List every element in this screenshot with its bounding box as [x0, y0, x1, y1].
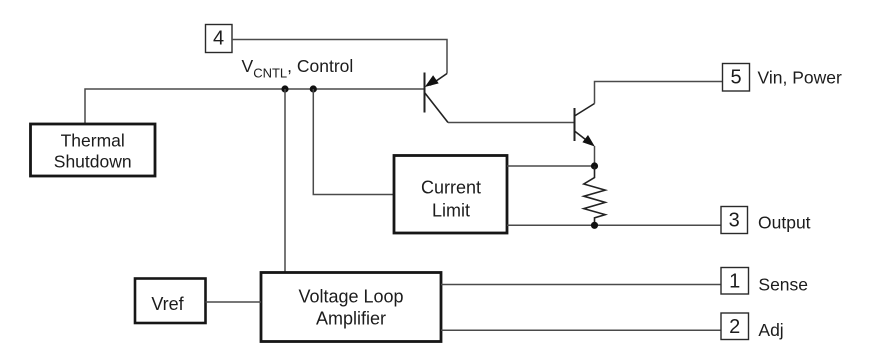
transistor Q1	[425, 73, 449, 123]
box Voltage Loop Amplifier	[261, 273, 441, 342]
wire Q2 collector to pin 5	[595, 82, 723, 104]
svg-text:Amplifier: Amplifier	[316, 309, 386, 329]
resistor R1	[584, 166, 605, 225]
node B junction	[591, 222, 598, 229]
transistor Q2	[575, 104, 595, 147]
wire VLA to pin 2	[441, 329, 721, 331]
node junction VCNTL to VLA	[281, 85, 288, 92]
wire Current Limit to node A	[507, 165, 595, 167]
wire VCNTL to Current Limit	[313, 89, 394, 195]
svg-text:Voltage Loop: Voltage Loop	[298, 287, 403, 307]
wire Vref to Voltage Loop Amplifier	[206, 301, 262, 303]
svg-text:Vin, Power: Vin, Power	[758, 67, 842, 87]
pin 3 box	[721, 207, 748, 234]
svg-text:5: 5	[730, 67, 741, 89]
svg-text:1: 1	[729, 270, 740, 292]
node junction VCNTL to Current Limit	[310, 85, 317, 92]
svg-text:Thermal: Thermal	[61, 131, 125, 151]
wire Current Limit to node B to pin 3	[507, 224, 721, 226]
wire Q2 emitter to node A	[594, 146, 596, 166]
pin 5 box	[723, 64, 750, 92]
wire VCNTL control line	[85, 89, 425, 124]
svg-text:Shutdown: Shutdown	[54, 152, 132, 172]
wire VCNTL to Voltage Loop Amplifier	[284, 89, 286, 273]
box Vref	[135, 279, 206, 324]
svg-text:Vref: Vref	[151, 294, 184, 314]
svg-text:Sense: Sense	[758, 275, 808, 295]
svg-text:2: 2	[729, 316, 740, 338]
wire Q1 collector to Q2 base	[448, 122, 575, 124]
wire pin4 to Q1 emitter elbow	[232, 40, 447, 74]
pin 2 box	[721, 313, 749, 340]
svg-text:3: 3	[729, 209, 740, 231]
node A junction	[591, 162, 598, 169]
svg-text:Adj: Adj	[758, 320, 783, 340]
pin 4 box	[206, 25, 233, 53]
box Current Limit	[394, 156, 507, 234]
svg-text:Output: Output	[758, 212, 811, 232]
svg-text:4: 4	[213, 28, 224, 50]
svg-text:Current: Current	[421, 178, 481, 198]
box Thermal Shutdown	[31, 124, 156, 176]
wire VLA to pin 1	[441, 284, 721, 286]
svg-text:Limit: Limit	[432, 201, 470, 221]
pin 1 box	[721, 268, 749, 295]
